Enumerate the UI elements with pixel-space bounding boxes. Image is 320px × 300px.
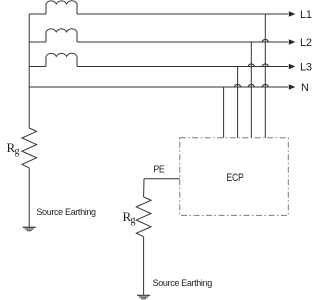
node star-point bus <box>28 14 30 128</box>
wire L3 <box>77 66 288 68</box>
wire PE horizontal <box>144 178 180 180</box>
svg-text:g: g <box>15 146 20 157</box>
wire middle earth lead <box>143 237 145 295</box>
wire hop N over L1-tap <box>262 84 268 87</box>
wire hop N over L3-tap <box>235 84 241 87</box>
svg-text:L1: L1 <box>300 9 312 21</box>
wire L1 stub <box>29 13 46 15</box>
wire hop L3 over L2-tap <box>248 64 254 67</box>
svg-text:Source Earthing: Source Earthing <box>153 278 213 288</box>
wire L3 tap to ECP <box>237 67 239 138</box>
svg-text:L3: L3 <box>300 62 312 74</box>
wire left earth lead <box>28 168 30 227</box>
svg-text:g: g <box>131 215 136 226</box>
svg-text:Source Earthing: Source Earthing <box>36 207 96 217</box>
inductor winding 1 <box>46 1 77 14</box>
inductor winding 2 <box>46 29 77 42</box>
wire PE vertical lead <box>143 179 145 197</box>
wire N tap to ECP <box>223 87 225 138</box>
arrowhead L2 <box>289 39 296 44</box>
ground symbol left <box>23 227 36 228</box>
wire hop L3 over L1-tap <box>262 64 268 67</box>
ground symbol bottom <box>137 295 150 296</box>
wire L2 stub <box>29 41 46 43</box>
resistor R_g source earthing left <box>22 128 37 168</box>
svg-text:PE: PE <box>153 164 164 176</box>
ECP box (dash-dot) <box>180 138 289 216</box>
wire hop L2 over L1-tap <box>262 39 268 42</box>
wire L2 tap to ECP <box>250 42 252 138</box>
svg-text:ECP: ECP <box>226 172 243 184</box>
svg-text:L2: L2 <box>300 37 312 49</box>
wire hop N over L2-tap <box>248 84 254 87</box>
arrowhead L3 <box>289 64 296 69</box>
wire L3 stub <box>29 66 46 68</box>
wire L2 <box>77 41 288 43</box>
inductor winding 3 <box>46 53 77 66</box>
wire L1 tap to ECP <box>264 14 266 138</box>
arrowhead N <box>289 84 296 89</box>
svg-text:N: N <box>301 82 309 94</box>
wire L1 <box>77 13 288 15</box>
wire N <box>29 86 288 88</box>
resistor R_g source earthing middle <box>136 197 151 237</box>
arrowhead L1 <box>289 11 296 16</box>
